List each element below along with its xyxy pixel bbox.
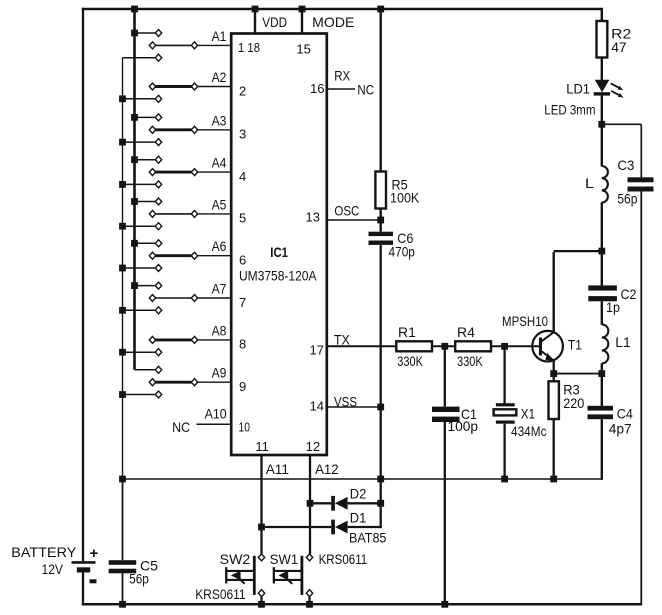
svg-text:470p: 470p <box>389 244 416 260</box>
resistor R1 330K <box>396 341 432 351</box>
node A3 jumper group (pin 3) <box>119 112 246 145</box>
svg-text:NC: NC <box>172 419 190 435</box>
node A8 jumper group (pin 8) <box>119 322 246 355</box>
switch SW2 KRS0611 <box>225 554 265 608</box>
svg-text:+: + <box>90 545 99 562</box>
svg-text:100K: 100K <box>390 190 420 206</box>
wire ground bus to C5 <box>122 479 124 560</box>
svg-text:T1: T1 <box>568 337 582 353</box>
svg-text:1p: 1p <box>606 299 620 315</box>
svg-text:SW1: SW1 <box>270 551 298 567</box>
wire top rail to R5 <box>380 9 382 172</box>
wire pin 11 / A11 <box>260 455 262 554</box>
wire top rail to R2 <box>601 9 603 22</box>
capacitor C3 56p <box>628 177 654 191</box>
resistor R2 47 <box>597 21 608 58</box>
svg-text:VDD: VDD <box>262 14 287 30</box>
junction R5 branch / top rail <box>377 6 384 13</box>
wire C1 to bottom rail <box>444 422 446 605</box>
svg-text:15: 15 <box>296 42 310 57</box>
svg-text:16: 16 <box>310 81 324 96</box>
wire to X1 <box>503 346 505 404</box>
wire battery positive lead (left frame) <box>82 8 84 562</box>
wire C5 to bottom rail <box>122 573 124 605</box>
svg-text:2: 2 <box>239 83 246 98</box>
wire R3 to mid rail <box>553 419 555 480</box>
diode D2 BAT85 <box>310 496 382 511</box>
junction A12 / D2 <box>307 500 314 507</box>
junction emitter/L1/C4 <box>598 370 605 377</box>
svg-text:47: 47 <box>611 39 627 55</box>
svg-text:TX: TX <box>334 332 351 348</box>
svg-text:220: 220 <box>563 395 584 411</box>
svg-text:X1: X1 <box>521 406 535 422</box>
wire R4 to T1 base <box>491 345 539 347</box>
wire to C1 <box>444 346 446 406</box>
wire ground address bus (thin) <box>122 58 124 479</box>
svg-text:6: 6 <box>239 253 246 268</box>
svg-text:L1: L1 <box>615 334 631 350</box>
junction VDD / top rail <box>252 6 259 13</box>
svg-text:KRS0611: KRS0611 <box>195 586 246 602</box>
node A5 jumper group (pin 5) <box>119 196 246 229</box>
wire pin 12 / A12 <box>309 455 311 554</box>
svg-text:VSS: VSS <box>334 394 357 410</box>
wire mid ground rail <box>123 478 602 480</box>
svg-text:A3: A3 <box>212 112 227 128</box>
resonator X1 434Mc <box>494 403 517 424</box>
capacitor C1 100p <box>432 407 460 422</box>
wire X1 to mid rail <box>503 424 505 480</box>
wire down to C3 <box>640 124 642 177</box>
resistor R3 220 <box>549 381 559 419</box>
svg-text:C3: C3 <box>617 157 634 173</box>
svg-text:IC1: IC1 <box>270 244 288 260</box>
junction C1 / bottom rail <box>441 601 448 608</box>
node A1 jumper group (pin 1) <box>123 28 261 61</box>
svg-text:56p: 56p <box>129 571 149 587</box>
wire R2 to LD1 <box>601 58 603 81</box>
battery BT1 12V <box>72 545 99 583</box>
svg-text:3: 3 <box>239 127 246 142</box>
svg-text:A1: A1 <box>212 28 227 44</box>
svg-text:330K: 330K <box>397 353 423 369</box>
svg-text:UM3758-120A: UM3758-120A <box>239 268 317 284</box>
svg-text:BATTERY: BATTERY <box>11 544 77 560</box>
junction X1 / mid rail <box>501 476 508 483</box>
svg-text:A5: A5 <box>212 196 227 212</box>
inductor L1 <box>602 324 609 363</box>
wire bottom ground rail <box>82 603 642 606</box>
wire emitter to R3 <box>553 374 555 382</box>
svg-text:A6: A6 <box>212 238 227 254</box>
svg-text:1 18: 1 18 <box>238 40 260 55</box>
svg-text:8: 8 <box>239 337 246 352</box>
svg-text:330K: 330K <box>457 353 483 369</box>
node A2 jumper group (pin 2) <box>119 69 246 102</box>
wire VSS pin 14 <box>327 406 381 408</box>
svg-text:12V: 12V <box>42 561 64 577</box>
svg-text:13: 13 <box>306 210 320 225</box>
resistor R5 100K <box>375 172 386 209</box>
svg-text:7: 7 <box>239 295 246 310</box>
junction VSS node <box>377 404 384 411</box>
wire emitter to L1 <box>554 373 602 375</box>
junction C3 branch <box>598 121 605 128</box>
wire branch to T1 collector <box>554 250 602 252</box>
node A4 jumper group (pin 4) <box>119 155 246 188</box>
wire OSC pin 13 <box>327 219 381 221</box>
wire VDD pin 18 <box>254 9 256 34</box>
junction emitter node <box>550 370 557 377</box>
node A10 pin 10 NC <box>172 406 250 436</box>
svg-text:LD1: LD1 <box>566 81 590 97</box>
svg-text:14: 14 <box>310 399 324 414</box>
svg-text:D2: D2 <box>350 486 367 502</box>
capacitor C2 1p <box>588 285 617 301</box>
wire L to C2 <box>601 202 603 285</box>
junction OSC node <box>377 217 384 224</box>
wire L1 to C4 <box>601 363 603 406</box>
node A7 jumper group (pin 7) <box>119 281 246 314</box>
svg-text:56p: 56p <box>617 191 637 207</box>
junction mid rail <box>377 476 384 483</box>
svg-text:A10: A10 <box>205 406 227 422</box>
junction R3 / mid rail <box>550 476 557 483</box>
svg-text:NC: NC <box>357 82 374 98</box>
svg-text:A2: A2 <box>212 69 227 85</box>
svg-text:RX: RX <box>334 68 351 84</box>
wire C3 branch top <box>602 123 642 125</box>
svg-text:A11: A11 <box>266 461 290 477</box>
wire RX pin 16 <box>327 88 355 90</box>
svg-text:10: 10 <box>239 419 250 434</box>
svg-text:A7: A7 <box>212 281 227 297</box>
svg-text:100p: 100p <box>448 418 479 434</box>
node A9 jumper group (pin 9) <box>119 365 246 398</box>
svg-text:R4: R4 <box>457 324 475 340</box>
junction X1 branch <box>501 343 508 350</box>
svg-text:D1: D1 <box>350 510 367 526</box>
svg-text:9: 9 <box>239 379 246 394</box>
svg-text:11: 11 <box>255 439 269 454</box>
wire T1 collector <box>553 252 555 332</box>
resistor R4 330K <box>455 341 491 351</box>
inductor L <box>602 166 608 203</box>
junction D2 / VSS wire <box>377 500 384 507</box>
svg-text:5: 5 <box>239 211 246 226</box>
svg-text:MPSH10: MPSH10 <box>502 313 548 329</box>
svg-text:C4: C4 <box>617 406 633 422</box>
switch SW1 KRS0611 <box>273 554 313 608</box>
junction top rail / address bus <box>131 6 138 13</box>
capacitor C4 4p7 <box>588 406 614 419</box>
wire top supply rail <box>82 8 603 10</box>
svg-text:BAT85: BAT85 <box>349 530 387 546</box>
wire R1 to R4 <box>432 345 455 347</box>
svg-text:A9: A9 <box>212 365 227 381</box>
wire battery negative lead <box>82 572 84 605</box>
LED LD1 3mm <box>594 80 624 98</box>
transistor T1 MPSH10 <box>532 331 563 362</box>
svg-text:OSC: OSC <box>334 203 359 219</box>
junction C5 / bottom rail <box>119 601 126 608</box>
svg-text:17: 17 <box>310 343 324 358</box>
wire C3 to bottom rail <box>640 192 642 606</box>
svg-text:L: L <box>585 175 594 191</box>
wire C2 to L1 <box>601 301 603 325</box>
node A6 jumper group (pin 6) <box>119 238 246 271</box>
capacitor C5 56p <box>109 560 137 573</box>
svg-text:A4: A4 <box>212 155 227 171</box>
svg-text:4: 4 <box>239 169 246 184</box>
svg-text:434Mc: 434Mc <box>511 423 547 439</box>
junction collector branch <box>598 248 605 255</box>
wire TX pin 17 <box>327 345 397 347</box>
svg-text:A8: A8 <box>212 322 227 338</box>
svg-text:12: 12 <box>306 439 320 454</box>
wire LD1 to L <box>601 96 603 167</box>
junction MODE / top rail <box>299 6 306 13</box>
svg-text:SW2: SW2 <box>220 551 251 567</box>
svg-text:LED 3mm: LED 3mm <box>544 102 595 118</box>
capacitor C6 470p <box>369 232 394 245</box>
svg-text:C2: C2 <box>621 286 637 302</box>
svg-text:MODE: MODE <box>312 14 354 30</box>
wire T1 emitter <box>553 361 555 375</box>
svg-text:KRS0611: KRS0611 <box>319 551 368 567</box>
svg-text:R1: R1 <box>398 324 416 340</box>
wire MODE pin 15 <box>301 9 303 34</box>
wire C6 down to VSS/diode net <box>380 245 382 503</box>
op-amp U? IC1 body UM3758-120A <box>231 34 327 456</box>
junction C1 branch <box>441 343 448 350</box>
diode D1 BAT85 <box>262 503 382 534</box>
junction thin bus / mid rail <box>119 476 126 483</box>
svg-text:A12: A12 <box>315 461 339 477</box>
svg-text:4p7: 4p7 <box>609 421 632 437</box>
wire VDD address bus (thick) <box>133 8 136 370</box>
wire R5 to OSC node <box>380 209 382 232</box>
wire C4 to mid rail end <box>601 419 603 480</box>
junction A11 / D1 <box>258 524 265 531</box>
